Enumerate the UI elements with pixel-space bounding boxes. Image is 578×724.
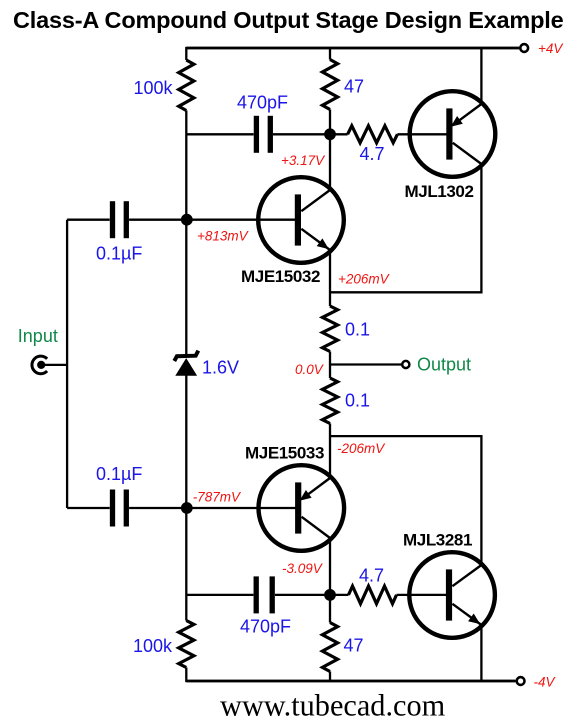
svg-text:-206mV: -206mV [337,441,386,456]
svg-text:-3.09V: -3.09V [282,561,324,576]
svg-text:-4V: -4V [534,674,557,689]
svg-text:+206mV: +206mV [338,271,391,286]
svg-text:Input: Input [18,326,58,346]
svg-text:MJE15032: MJE15032 [241,267,320,286]
svg-text:470pF: 470pF [237,93,288,113]
svg-text:0.1µF: 0.1µF [96,244,142,264]
svg-text:0.1: 0.1 [345,391,370,411]
svg-text:+813mV: +813mV [197,228,250,243]
svg-text:+3.17V: +3.17V [281,153,326,168]
svg-text:0.0V: 0.0V [295,362,325,377]
svg-text:47: 47 [344,76,364,96]
svg-text:Output: Output [417,355,471,375]
svg-text:470pF: 470pF [240,617,291,637]
svg-text:MJL1302: MJL1302 [405,182,474,201]
svg-text:0.1µF: 0.1µF [96,464,142,484]
svg-text:-787mV: -787mV [193,489,242,504]
svg-text:4.7: 4.7 [359,566,384,586]
svg-text:0.1: 0.1 [345,320,370,340]
svg-text:47: 47 [344,636,364,656]
svg-text:100k: 100k [134,78,174,98]
svg-text:Class-A Compound Output Stage: Class-A Compound Output Stage Design Exa… [13,7,564,33]
svg-text:100k: 100k [133,636,173,656]
svg-text:MJE15033: MJE15033 [245,443,324,462]
svg-text:MJL3281: MJL3281 [403,531,472,550]
svg-text:+4V: +4V [538,41,564,56]
svg-text:1.6V: 1.6V [202,358,239,378]
svg-text:4.7: 4.7 [360,144,385,164]
svg-text:www.tubecad.com: www.tubecad.com [220,689,446,723]
